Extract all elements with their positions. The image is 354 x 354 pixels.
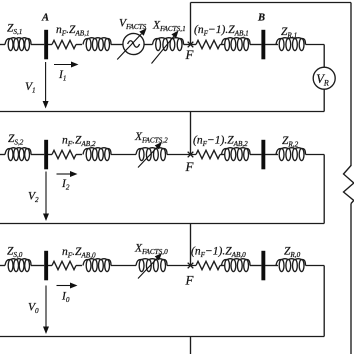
voltage arrow V_2: [43, 172, 49, 222]
label X_FACTS,2: [134, 131, 168, 145]
svg-text:nF.ZAB,1: nF.ZAB,1: [56, 24, 90, 38]
label Z_R,0: [284, 246, 301, 260]
svg-text:V2: V2: [28, 191, 39, 205]
inductor Z_S,2: [5, 148, 31, 161]
wire row2 to bus: [250, 154, 261, 156]
wire row2: [265, 154, 278, 156]
label (n_F-1).Z_AB,1: [194, 24, 249, 38]
bus bar left row2: [44, 140, 48, 170]
label Z_R,2: [282, 135, 299, 149]
current arrow I_0: [57, 283, 78, 289]
wire row1 left lead: [0, 44, 5, 46]
wire row3 to X_FACTS: [111, 265, 136, 267]
label Z_R,1: [281, 26, 297, 40]
label F row3: [185, 273, 195, 288]
node F row3 junction mark: [188, 263, 194, 269]
wire row1: [220, 44, 225, 46]
label bus A: [41, 13, 49, 24]
resistor part of (n_F-1).Z_AB,2: [196, 150, 220, 158]
bus bar right row1 (B): [261, 30, 265, 60]
label n_F.Z_AB,0: [62, 246, 96, 260]
svg-text:I1: I1: [58, 69, 66, 83]
current arrow I_1: [54, 62, 79, 68]
inductor Z_R,1: [276, 38, 306, 51]
label F row1: [185, 47, 195, 62]
variable inductor X_FACTS,0: [136, 253, 167, 279]
wire rail2 to F3: [190, 224, 192, 266]
svg-text:ZS,2: ZS,2: [8, 133, 24, 147]
wire top bypass: [191, 2, 352, 4]
svg-text:(nF−1).ZAB,2: (nF−1).ZAB,2: [193, 135, 248, 149]
svg-text:ZR,1: ZR,1: [281, 26, 297, 40]
svg-text:ZR,2: ZR,2: [282, 135, 299, 149]
wire row3: [48, 265, 52, 267]
svg-text:V1: V1: [25, 81, 36, 95]
wire right edge lower: [350, 204, 352, 354]
wire row2 to F: [167, 154, 196, 156]
label V_FACTS: [119, 18, 147, 32]
label Z_S,0: [7, 246, 23, 260]
svg-text:I2: I2: [61, 178, 70, 192]
label I_0: [61, 291, 70, 305]
variable inductor X_FACTS,2: [136, 142, 167, 168]
inductor part of (n_F-1).Z_AB,0: [222, 259, 251, 272]
wire rail3 down to edge: [190, 337, 192, 354]
svg-text:ZS,0: ZS,0: [7, 246, 23, 260]
svg-text:F: F: [185, 273, 195, 288]
wire row1 to F: [184, 44, 197, 46]
svg-text:XFACTS,1: XFACTS,1: [152, 20, 186, 34]
label bus B: [257, 13, 265, 24]
svg-text:VR: VR: [316, 72, 329, 88]
label V_2: [28, 191, 39, 205]
svg-text:F: F: [185, 47, 195, 62]
wire row1 to right corner: [306, 44, 325, 46]
wire row1 V_FACTS to X_FACTS: [145, 44, 153, 46]
label n_F.Z_AB,1: [56, 24, 90, 38]
wire row2: [48, 154, 52, 156]
label X_FACTS,1: [152, 20, 186, 34]
node F row1 junction mark: [188, 42, 194, 48]
resistor part of (n_F-1).Z_AB,1: [196, 40, 220, 48]
wire node F1 up: [190, 3, 192, 45]
svg-text:(nF−1).ZAB,1: (nF−1).ZAB,1: [194, 24, 249, 38]
inductor part of (n_F-1).Z_AB,2: [222, 148, 251, 161]
svg-text:XFACTS,0: XFACTS,0: [134, 243, 168, 257]
bus bar left row1 (A): [44, 30, 48, 60]
wire row3 right drop: [323, 266, 325, 337]
label X_FACTS,0: [134, 243, 168, 257]
wire row3: [265, 265, 278, 267]
label I_1: [58, 69, 66, 83]
wire row1: [265, 44, 278, 46]
voltage source V_FACTS (variable): [117, 28, 146, 59]
resistor part of n_F.Z_AB,1: [52, 40, 76, 48]
bus bar left row3: [44, 251, 48, 280]
wire row2 left lead: [0, 154, 5, 156]
svg-text:XFACTS,2: XFACTS,2: [134, 131, 168, 145]
svg-text:ZR,0: ZR,0: [284, 246, 301, 260]
wire row2 to bus: [31, 154, 44, 156]
fault resistor on right edge: [344, 166, 354, 204]
wire row3 to bus: [31, 265, 44, 267]
variable inductor X_FACTS,1: [152, 31, 184, 64]
wire rail row3: [0, 336, 324, 338]
wire row2 to X_FACTS: [111, 154, 136, 156]
resistor part of n_F.Z_AB,2: [52, 150, 76, 158]
wire row3: [220, 265, 225, 267]
inductor Z_S,1: [5, 38, 31, 51]
inductor Z_R,0: [276, 259, 306, 272]
svg-text:V0: V0: [28, 302, 39, 316]
wire row2: [76, 154, 82, 156]
wire row1: [76, 44, 82, 46]
label V_0: [28, 302, 39, 316]
inductor Z_R,2: [276, 148, 306, 161]
wire row1 to V_FACTS: [111, 44, 123, 46]
label I_2: [61, 178, 70, 192]
wire row3 left lead: [0, 265, 5, 267]
inductor part of n_F.Z_AB,1: [83, 38, 111, 51]
wire row1 to bus: [31, 44, 44, 46]
svg-text:F: F: [185, 159, 195, 174]
current arrow I_2: [57, 171, 78, 177]
wire right edge upper: [350, 3, 352, 167]
wire row3: [76, 265, 82, 267]
wire rail1 to F2: [190, 112, 192, 155]
label n_F.Z_AB,2: [62, 135, 96, 149]
inductor part of n_F.Z_AB,0: [83, 259, 111, 272]
voltage arrow V_1: [43, 62, 49, 109]
wire row2 to right corner: [306, 154, 325, 156]
wire row1 to bus: [250, 44, 261, 46]
svg-text:B: B: [257, 13, 265, 24]
svg-text:nF.ZAB,0: nF.ZAB,0: [62, 246, 96, 260]
label F row2: [185, 159, 195, 174]
label Z_S,1: [7, 23, 22, 37]
wire row2 right drop: [323, 155, 325, 224]
bus bar right row2: [261, 140, 265, 170]
wire row1 right drop to V_R: [323, 45, 325, 68]
wire row1: [48, 44, 52, 46]
bus bar right row3: [261, 251, 265, 280]
source V_R: [313, 67, 335, 89]
label (n_F-1).Z_AB,0: [191, 246, 246, 260]
wire V_R to rail1: [323, 89, 325, 112]
svg-text:I0: I0: [61, 291, 70, 305]
wire row3 to bus: [250, 265, 261, 267]
resistor part of (n_F-1).Z_AB,0: [196, 261, 220, 269]
inductor part of (n_F-1).Z_AB,1: [222, 38, 251, 51]
wire row3 to right corner: [306, 265, 325, 267]
inductor Z_S,0: [5, 259, 31, 272]
wire row3 to F: [167, 265, 196, 267]
svg-text:VFACTS: VFACTS: [119, 18, 147, 32]
label Z_S,2: [8, 133, 24, 147]
wire rail row1: [0, 111, 324, 113]
resistor part of n_F.Z_AB,0: [52, 261, 76, 269]
node F row2 junction mark: [188, 152, 194, 158]
label V_1: [25, 81, 36, 95]
svg-text:(nF−1).ZAB,0: (nF−1).ZAB,0: [191, 246, 246, 260]
svg-text:ZS,1: ZS,1: [7, 23, 22, 37]
voltage arrow V_0: [43, 286, 49, 335]
wire rail row2: [0, 223, 324, 225]
svg-text:nF.ZAB,2: nF.ZAB,2: [62, 135, 96, 149]
wire row2: [220, 154, 225, 156]
label (n_F-1).Z_AB,2: [193, 135, 248, 149]
svg-text:A: A: [41, 13, 49, 24]
inductor part of n_F.Z_AB,2: [83, 148, 111, 161]
